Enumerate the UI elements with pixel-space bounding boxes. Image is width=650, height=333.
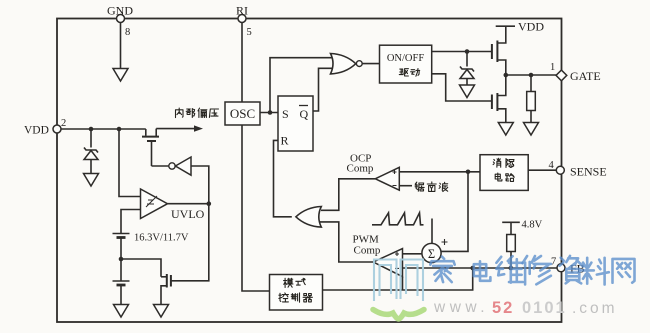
IC boundary box (57, 19, 562, 323)
wire S node to NOR top input (270, 58, 334, 113)
junction FB/mode (470, 266, 475, 271)
wire ramp input to summer (431, 219, 433, 244)
junction zener D2 (465, 49, 470, 54)
wire OSC output to latch S (260, 112, 278, 114)
summer (sigma) U8 (422, 243, 441, 262)
wire OSC to mode controller (242, 125, 270, 291)
svg-text:S: S (282, 107, 289, 121)
wire NOR output to ON/OFF driver (362, 63, 379, 65)
svg-text:R: R (281, 134, 289, 148)
junction UVLO output node (207, 201, 212, 206)
pin 2 VDD (left) (53, 125, 61, 133)
svg-text:OSC: OSC (230, 106, 255, 121)
battery reference 16.3V/11.7V (113, 233, 130, 235)
svg-text:SENSE: SENSE (570, 165, 607, 179)
wire RI pin to OSC (241, 23, 243, 103)
pin 8 GND (117, 15, 125, 23)
zener D1 (84, 148, 98, 153)
svg-text:0101: 0101 (522, 299, 567, 317)
wire midpoint to GATE pin (506, 74, 558, 76)
NOR gate U5 (331, 54, 356, 74)
svg-text:Comp: Comp (347, 163, 374, 175)
wire VDD rail (61, 128, 146, 130)
ground symbol (GND pin) (113, 69, 128, 82)
label 驱动 (399, 69, 408, 76)
pin 4 SENSE (556, 166, 564, 174)
junction S input node (268, 110, 273, 115)
pin 7 FB (557, 264, 565, 272)
wire PWM base stub to mode line (402, 277, 404, 290)
wire summer output to PWM + input (403, 253, 422, 255)
svg-text:UVLO: UVLO (171, 207, 205, 221)
4.8V supply tick (502, 221, 520, 223)
wire FB pin to PWM - input (403, 267, 558, 269)
pin 5 RI (238, 15, 246, 23)
ground symbol (R2) (524, 123, 539, 136)
ground symbol (battery stack) (114, 305, 129, 318)
transistor Q2 (reference switch NMOS) (161, 276, 167, 278)
svg-text:www.: www. (433, 299, 489, 316)
svg-text:VDD: VDD (518, 20, 544, 34)
svg-text:2: 2 (61, 118, 66, 129)
zener D2 (466, 52, 468, 67)
junction driver midpoint (504, 73, 509, 78)
transistor Q4 (lower driver) (498, 75, 506, 96)
ground symbol (zener D1) (84, 174, 99, 187)
wire OR bottom input from PWM comp (320, 222, 373, 262)
block SR latch U4 (278, 96, 313, 151)
resistor R3 (FB pullup) (510, 222, 512, 234)
svg-text:52: 52 (492, 299, 514, 317)
resistor R2 (gate pulldown) (530, 75, 532, 92)
svg-text:7: 7 (551, 257, 556, 268)
svg-text:GATE: GATE (570, 69, 601, 83)
ground symbol (Q2 source) (154, 305, 169, 318)
svg-text:.com: .com (572, 300, 618, 317)
wire internal-bias output arrow (156, 128, 196, 130)
label 内部偏压 (176, 108, 184, 118)
block ON/OFF driver (380, 45, 432, 83)
wire R input from OR gate (274, 140, 292, 216)
junction pull-down resistor (529, 73, 534, 78)
svg-text:16.3V/11.7V: 16.3V/11.7V (134, 233, 189, 244)
wire battery node to Q2 drain (121, 259, 161, 277)
label 锯齿波 (415, 182, 424, 191)
wire driver top output to Q3 gate (432, 51, 492, 53)
wire VDD to UVLO + input (119, 129, 141, 197)
svg-text:1: 1 (550, 62, 555, 73)
svg-text:ON/OFF: ON/OFF (387, 53, 425, 64)
wire UVLO - input to reference (121, 210, 141, 234)
wire OCP output to OR gate (321, 179, 375, 211)
svg-text:Comp: Comp (354, 245, 381, 257)
wire inverter input from UVLO output (191, 166, 209, 204)
wire Q2 gate from UVLO output (171, 204, 209, 281)
wire Q1 gate to inverter output (151, 142, 153, 166)
block 消隐电路 (blanking) (480, 155, 528, 191)
junction blanking/OCP/sum node (466, 170, 471, 175)
watermark text 家电维修资料网 (430, 257, 454, 283)
wire mode controller to FB node (323, 268, 473, 290)
ground symbol (zener D2) (460, 85, 475, 98)
pin 1 GATE (556, 70, 567, 81)
svg-text:5: 5 (247, 27, 252, 38)
wire blanking to SENSE pin (528, 169, 556, 171)
svg-text:8: 8 (125, 27, 130, 38)
transistor Q3 (upper driver) (498, 26, 506, 43)
wire sense node down to summer (441, 172, 468, 252)
wire UVLO output (168, 203, 209, 205)
junction VDD rail / zener D1 (89, 127, 94, 132)
wire OCP + input from blanking (399, 171, 480, 173)
OR gate U7 (fault OR) (296, 207, 321, 228)
junction FB/4.8V resistor (509, 266, 514, 271)
wire GND pin to internal ground (120, 23, 122, 69)
junction battery node (119, 257, 124, 262)
block OSC (225, 102, 260, 125)
svg-text:VDD: VDD (24, 125, 49, 137)
sawtooth waveform annotation (372, 213, 424, 225)
op-amp UVLO comparator U3 (141, 189, 168, 219)
wire driver bottom output to Q4 gate (432, 74, 492, 101)
svg-text:Q: Q (300, 107, 309, 121)
svg-text:RI: RI (236, 4, 248, 18)
wire OCP - input stub (sawtooth) (399, 185, 412, 187)
inverter U2 (152, 165, 169, 167)
ground symbol (Q4 source) (498, 123, 513, 136)
battery reference lower (120, 259, 122, 281)
junction VDD rail / UVLO sense (117, 127, 122, 132)
svg-text:GND: GND (107, 4, 133, 18)
svg-text:4.8V: 4.8V (522, 220, 543, 231)
svg-text:4: 4 (549, 160, 555, 171)
transistor Q1 (internal bias PMOS) (145, 129, 147, 136)
watermark logo (teal book) (374, 260, 423, 302)
wire zener D1 branch (90, 129, 92, 148)
VDD supply tick (driver) (496, 25, 515, 27)
svg-text:Σ: Σ (428, 247, 435, 261)
wire Qbar to NOR bottom input (313, 68, 335, 111)
block 模式控制器 (mode controller) (270, 275, 323, 311)
